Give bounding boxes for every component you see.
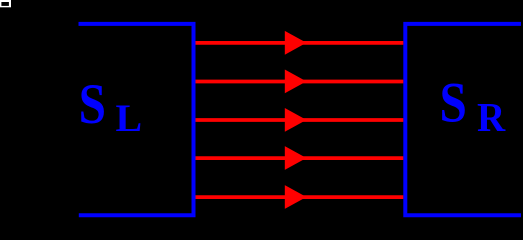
- arrowhead 5: [285, 185, 307, 209]
- svg-text:S: S: [79, 73, 106, 136]
- svg-text:S: S: [440, 72, 467, 135]
- corner glyph icon: [0, 0, 11, 7]
- arrowhead 4: [285, 146, 307, 170]
- arrow line 5: [196, 195, 404, 199]
- left surface box S_L (open on left): [79, 24, 194, 215]
- arrow line 3: [196, 118, 404, 122]
- arrowhead 3: [285, 108, 307, 132]
- arrow line 2: [196, 80, 404, 84]
- right surface box S_R (open on right): [405, 24, 521, 215]
- svg-text:R: R: [477, 94, 506, 140]
- arrowhead 2: [285, 70, 307, 94]
- arrow line 4: [196, 156, 404, 160]
- svg-text:L: L: [116, 96, 143, 140]
- arrow line 1: [196, 41, 404, 45]
- arrowhead 1: [285, 31, 307, 55]
